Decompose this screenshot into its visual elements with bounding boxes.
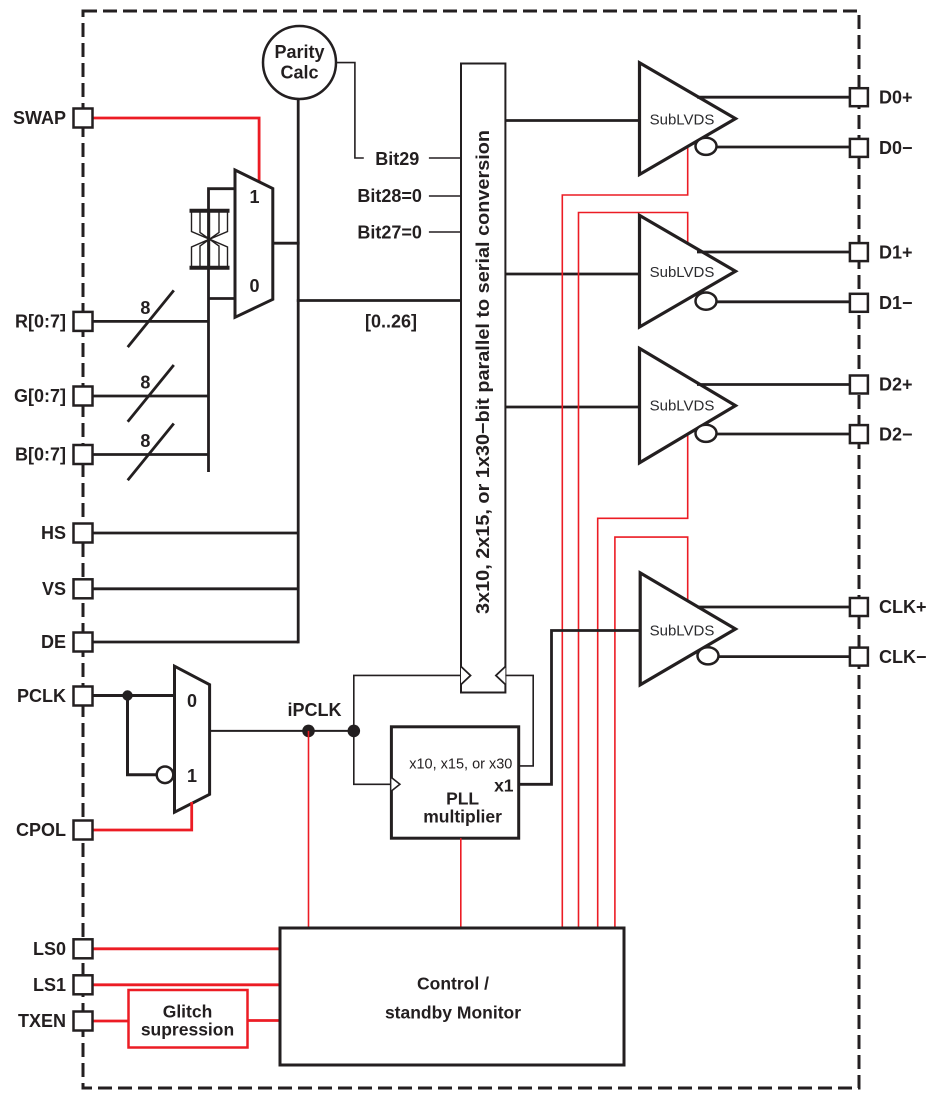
svg-text:x1: x1 bbox=[494, 776, 514, 796]
SubLVDS driver CLK bbox=[640, 573, 735, 685]
wire vertical RGB bus with mux input stubs bbox=[209, 189, 236, 472]
wire parity vertical trunk bbox=[297, 99, 300, 643]
junction PCLK bbox=[122, 690, 132, 700]
wire PLL feedback multiplied clock bbox=[505, 675, 533, 766]
pin LS0 bbox=[33, 939, 93, 959]
pin DE bbox=[41, 632, 93, 652]
svg-text:CPOL: CPOL bbox=[16, 820, 66, 840]
wire VS bbox=[93, 587, 299, 590]
svg-text:0: 0 bbox=[249, 276, 259, 296]
pin D0- bbox=[850, 138, 913, 158]
svg-text:0: 0 bbox=[187, 691, 197, 711]
wire DE bbox=[93, 641, 299, 644]
svg-text:R[0:7]: R[0:7] bbox=[15, 312, 66, 332]
svg-text:multiplier: multiplier bbox=[423, 807, 502, 827]
parity calc circle bbox=[263, 26, 336, 99]
swap crossover symbol bbox=[190, 211, 230, 268]
pin CLK+ bbox=[850, 597, 927, 617]
wire converter to D0 driver bbox=[505, 119, 639, 122]
wire D2- bbox=[717, 433, 850, 436]
svg-text:1: 1 bbox=[187, 766, 197, 786]
pin VS bbox=[42, 579, 93, 599]
wire G bus bbox=[93, 395, 209, 398]
svg-text:3x10, 2x15, or 1x30−bit parall: 3x10, 2x15, or 1x30−bit parallel to seri… bbox=[472, 130, 493, 614]
converter clock chevron left bbox=[461, 667, 471, 685]
wire PCLK inverted branch bbox=[128, 696, 157, 775]
wire TXEN red bbox=[94, 1020, 129, 1023]
wire mux output bbox=[273, 242, 300, 245]
svg-text:8: 8 bbox=[140, 298, 150, 318]
svg-text:SubLVDS: SubLVDS bbox=[650, 398, 715, 415]
svg-text:VS: VS bbox=[42, 579, 66, 599]
wire parallel bus 0..26 bbox=[297, 299, 461, 302]
converter clock chevron right bbox=[496, 667, 506, 685]
wire glitch to control red bbox=[248, 1019, 281, 1022]
svg-text:SWAP: SWAP bbox=[13, 108, 66, 128]
wire iPCLK bbox=[210, 730, 354, 732]
wire D1+ bbox=[697, 251, 850, 254]
svg-text:x10, x15, or x30: x10, x15, or x30 bbox=[409, 757, 512, 773]
wire parity to Bit29 bbox=[336, 63, 364, 158]
pin D1- bbox=[850, 293, 913, 313]
svg-text:Bit28=0: Bit28=0 bbox=[357, 186, 422, 206]
wire CPOL red bbox=[94, 802, 192, 830]
svg-text:LS1: LS1 bbox=[33, 975, 66, 995]
wire LS0 red bbox=[94, 947, 281, 950]
wire B bus bbox=[93, 453, 209, 456]
pin D1+ bbox=[850, 242, 913, 262]
wire HS bbox=[93, 532, 299, 535]
SubLVDS driver D0 bbox=[640, 63, 736, 175]
wire enable D2 red bbox=[598, 433, 688, 928]
svg-text:supression: supression bbox=[141, 1020, 234, 1040]
svg-text:D0+: D0+ bbox=[879, 87, 913, 107]
junction iPCLK B bbox=[348, 725, 361, 738]
svg-text:D2−: D2− bbox=[879, 424, 913, 444]
svg-text:Control /: Control / bbox=[417, 974, 489, 994]
svg-text:SubLVDS: SubLVDS bbox=[650, 264, 715, 281]
wire converter to D2 driver bbox=[505, 406, 639, 409]
svg-text:G[0:7]: G[0:7] bbox=[14, 386, 66, 406]
svg-text:Bit29: Bit29 bbox=[375, 149, 419, 169]
PLL clock chevron bbox=[391, 778, 400, 792]
svg-text:1: 1 bbox=[249, 187, 259, 207]
svg-text:D1+: D1+ bbox=[879, 242, 913, 262]
pin D0+ bbox=[850, 87, 913, 107]
bubble D1- bbox=[696, 293, 717, 310]
wire iPCLK to converter and PLL bbox=[354, 675, 461, 784]
svg-text:Bit27=0: Bit27=0 bbox=[357, 223, 422, 243]
svg-text:SubLVDS: SubLVDS bbox=[650, 623, 715, 640]
glitch supression box bbox=[129, 990, 248, 1048]
pin SWAP bbox=[13, 108, 93, 128]
svg-text:CLK−: CLK− bbox=[879, 647, 927, 667]
wire LS1 red bbox=[94, 983, 281, 986]
wire Bit27 to converter bbox=[429, 231, 461, 233]
svg-text:PLL: PLL bbox=[446, 789, 479, 809]
wire iPCLK to control red bbox=[308, 731, 310, 928]
svg-text:LS0: LS0 bbox=[33, 939, 66, 959]
pin CLK- bbox=[850, 647, 927, 667]
svg-text:8: 8 bbox=[140, 431, 150, 451]
bus slash 8 B bbox=[128, 424, 174, 481]
pin G[0:7] bbox=[14, 386, 93, 406]
wire CLK- bbox=[719, 655, 850, 658]
svg-text:[0..26]: [0..26] bbox=[365, 312, 417, 332]
svg-text:HS: HS bbox=[41, 523, 66, 543]
svg-text:D2+: D2+ bbox=[879, 375, 913, 395]
control standby monitor box bbox=[280, 928, 624, 1065]
svg-text:D0−: D0− bbox=[879, 138, 913, 158]
svg-text:B[0:7]: B[0:7] bbox=[15, 445, 66, 465]
bubble D0- bbox=[696, 138, 717, 155]
wire enable D1 red bbox=[579, 213, 688, 929]
wire enable CLK red bbox=[615, 537, 688, 928]
mux U2 clock polarity bbox=[175, 666, 210, 812]
wire SWAP red bbox=[92, 118, 259, 183]
SubLVDS driver D2 bbox=[640, 348, 736, 462]
junction iPCLK A bbox=[302, 725, 315, 738]
svg-text:Calc: Calc bbox=[280, 63, 318, 83]
wire D2+ bbox=[697, 383, 850, 386]
svg-text:TXEN: TXEN bbox=[18, 1011, 66, 1031]
pin TXEN bbox=[18, 1011, 93, 1031]
svg-text:Glitch: Glitch bbox=[163, 1002, 213, 1022]
bus slash 8 G bbox=[128, 365, 174, 422]
wire converter to D1 driver bbox=[505, 273, 639, 276]
bubble D2- bbox=[696, 425, 717, 442]
wire enable D0 red bbox=[562, 148, 687, 928]
svg-text:CLK+: CLK+ bbox=[879, 597, 927, 617]
svg-text:8: 8 bbox=[140, 373, 150, 393]
wire Bit28 to converter bbox=[429, 195, 461, 197]
wire PLL x1 to CLK driver bbox=[519, 631, 640, 785]
svg-text:D1−: D1− bbox=[879, 293, 913, 313]
wire D1- bbox=[717, 300, 850, 303]
pin B[0:7] bbox=[15, 445, 93, 465]
wire Bit29 to converter bbox=[429, 157, 461, 159]
bubble CLK- bbox=[698, 647, 719, 664]
inverter bubble bbox=[157, 767, 174, 784]
pin PCLK bbox=[17, 686, 93, 706]
pin R[0:7] bbox=[15, 312, 93, 332]
PLL multiplier box bbox=[391, 727, 518, 838]
svg-text:Parity: Parity bbox=[274, 42, 324, 62]
wire PCLK input bbox=[94, 694, 175, 697]
svg-text:standby Monitor: standby Monitor bbox=[385, 1003, 521, 1023]
wire CLK+ bbox=[697, 606, 850, 609]
svg-text:iPCLK: iPCLK bbox=[288, 700, 342, 720]
wire R bus bbox=[93, 320, 209, 323]
svg-text:PCLK: PCLK bbox=[17, 686, 66, 706]
pin D2- bbox=[850, 424, 913, 444]
pin CPOL bbox=[16, 820, 93, 840]
svg-text:SubLVDS: SubLVDS bbox=[650, 112, 715, 129]
parallel to serial converter box bbox=[461, 64, 505, 693]
pin D2+ bbox=[850, 375, 913, 395]
wire D0- bbox=[717, 146, 850, 149]
pin LS1 bbox=[33, 975, 93, 995]
svg-text:DE: DE bbox=[41, 632, 66, 652]
wire D0+ bbox=[697, 96, 850, 99]
mux U1 swap select bbox=[235, 170, 273, 317]
bus slash 8 R bbox=[128, 290, 174, 347]
SubLVDS driver D1 bbox=[640, 215, 736, 327]
wire PLL to control red bbox=[460, 838, 462, 928]
pin HS bbox=[41, 523, 93, 543]
